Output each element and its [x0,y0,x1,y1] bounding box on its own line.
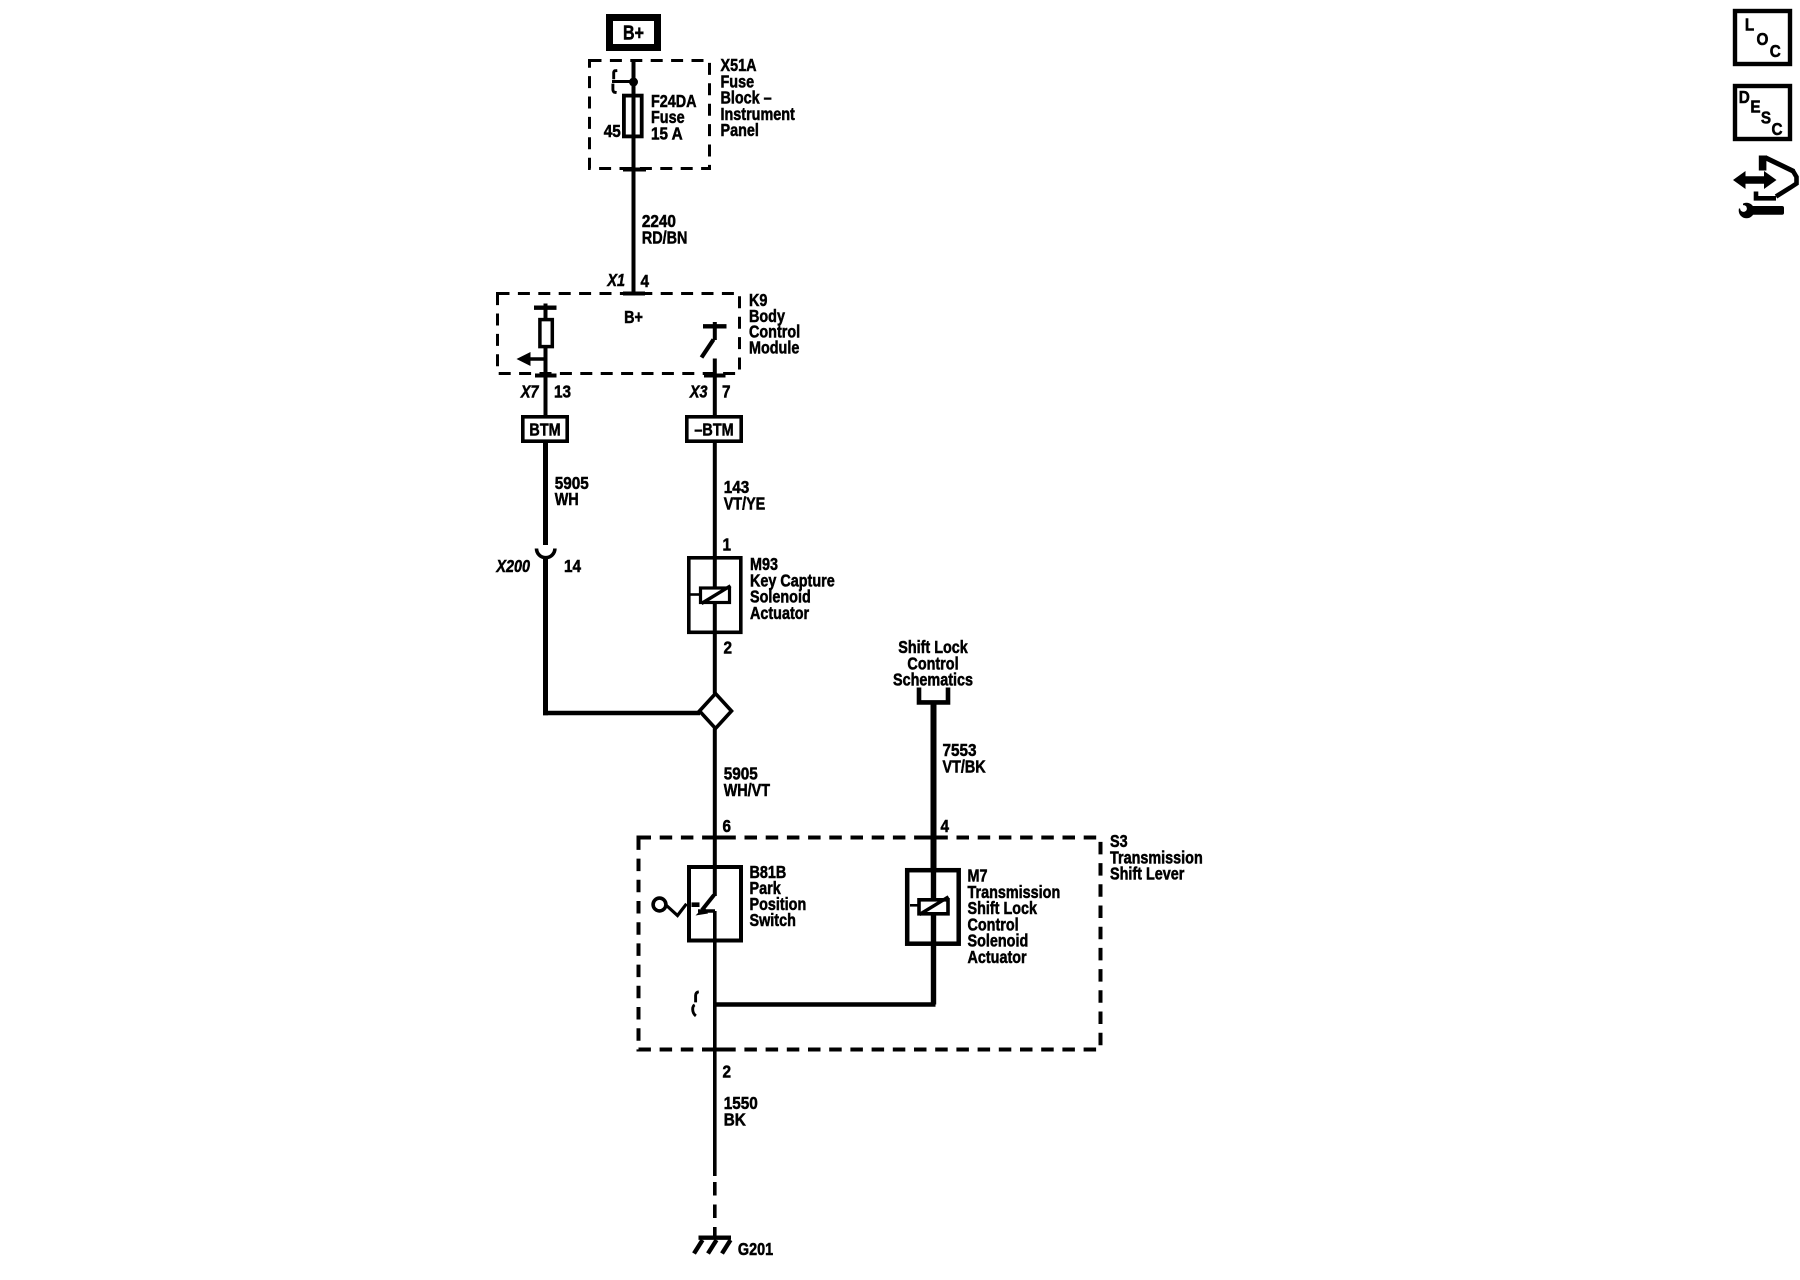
wire 143 VT/YE label [724,477,766,514]
svg-text:X3: X3 [689,382,707,402]
connector view navigation icon [1733,156,1797,199]
battery B+ terminal box [610,18,658,48]
X51A fuse block label [721,56,796,141]
svg-text:4: 4 [941,816,950,836]
svg-text:1: 1 [723,534,732,554]
svg-text:WH/VT: WH/VT [724,780,770,800]
-BTM net box [687,417,741,441]
body control module K9 dashed box [498,294,740,374]
M93 solenoid element [690,586,731,604]
ticks K9 bottom pins [535,374,726,378]
wire 143 VT/YE from -BTM to M93 [713,443,717,556]
svg-text:BTM: BTM [529,420,560,440]
ticks S3 top pins [704,836,945,840]
svg-text:VT/YE: VT/YE [724,494,766,514]
fuse F24DA value label [651,91,697,143]
svg-text:C: C [1772,119,1783,139]
BTM net box [523,417,567,441]
svg-text:2: 2 [723,1061,732,1081]
B81B park position switch label [750,863,807,931]
svg-text:–BTM: –BTM [694,420,733,440]
wire from X200 down to junction [543,556,548,715]
connector X7 pin 13 labels [520,381,571,402]
junction dot [629,78,638,87]
transmission shift lock solenoid M7 wire [931,868,936,1005]
svg-text:Schematics: Schematics [893,670,973,690]
svg-text:L: L [1745,14,1754,34]
terminal stub and hook in fuse block [612,71,634,93]
wire from B81B to ground leg [713,911,717,1176]
svg-text:14: 14 [564,556,582,576]
svg-text:E: E [1750,96,1760,116]
wire horizontal to diamond junction [543,711,700,715]
svg-text:45: 45 [604,121,621,141]
K9 body control module label [749,291,800,358]
svg-text:Module: Module [749,338,799,358]
svg-text:2: 2 [724,637,733,657]
svg-text:B+: B+ [624,308,643,328]
LOC link icon box [1735,11,1790,64]
wire B+ feed to BCM [632,60,636,294]
dashed wire to ground [713,1182,717,1237]
M7 solenoid element [910,897,949,915]
transmission shift lever S3 dashed box [639,838,1101,1050]
tick S3 bottom pin 2 [704,1048,726,1052]
svg-text:BK: BK [724,1109,746,1129]
wire 5905 WH/VT from diamond to S3 [713,729,717,837]
svg-text:VT/BK: VT/BK [943,757,986,777]
ground G201 symbol [694,1238,731,1254]
svg-text:RD/BN: RD/BN [642,228,688,248]
svg-text:15 A: 15 A [651,123,683,143]
wire into B81B [713,836,717,896]
connector X1 pin 4 labels [607,271,650,292]
M7 transmission shift lock control solenoid actuator label [968,866,1061,967]
M93 key capture solenoid actuator label [750,555,835,624]
splice hook symbol at junction [693,992,699,1016]
svg-text:6: 6 [723,816,732,836]
wire 5905 WH from BTM to X200 [543,443,548,545]
K9 internal switch element [702,322,727,415]
fuse F24DA [624,96,642,137]
S3 internal horizontal wire from M7 to B81B leg [715,1002,936,1006]
S3 transmission shift lever label [1110,832,1203,884]
svg-text:7: 7 [722,381,731,401]
svg-text:4: 4 [641,271,650,291]
svg-text:X200: X200 [496,557,530,577]
svg-text:X7: X7 [520,382,539,402]
shift lock control schematics off-page label [893,638,973,690]
wrench icon [1738,203,1784,219]
svg-text:13: 13 [554,381,571,401]
off-page connector bracket [919,688,948,703]
svg-text:B+: B+ [623,22,644,44]
svg-text:Actuator: Actuator [968,948,1028,968]
diamond splice node [700,694,732,729]
inline connector X200 symbol [537,549,555,558]
svg-text:Shift Lever: Shift Lever [1110,864,1185,884]
svg-text:Switch: Switch [750,911,796,931]
wire 5905 WH/VT label [724,763,770,800]
connector X3 pin 7 labels [689,381,730,402]
key capture solenoid actuator M93 box [689,558,741,633]
svg-text:O: O [1757,29,1769,49]
wire 2240 RD/BN label [642,211,688,248]
wire 1550 BK label [724,1093,758,1130]
M7 transmission shift lock control solenoid box [907,870,959,944]
B81B plunger circle and link [653,898,699,915]
fuse block X51A dashed box [590,61,710,169]
svg-text:S: S [1761,107,1771,127]
tick X51A bottom pin [623,168,646,172]
svg-text:C: C [1770,41,1781,61]
DESC link icon box [1735,86,1790,140]
connector X200 pin 14 labels [496,556,582,577]
svg-text:Panel: Panel [721,121,759,141]
svg-text:Actuator: Actuator [750,603,810,623]
B81B switch blade and contact [696,895,716,916]
svg-text:X1: X1 [607,271,625,291]
tick K9 top pin X1-4 [623,292,645,296]
svg-text:D: D [1739,87,1750,107]
wire through M93 [713,556,717,694]
K9 internal arrow output [517,352,547,366]
park position switch B81B box [689,867,741,941]
svg-text:G201: G201 [738,1239,773,1259]
wire 7553 VT/BK [931,702,937,868]
wire 7553 VT/BK label [943,740,986,777]
wire 5905 WH label [555,473,589,510]
svg-text:WH: WH [555,490,579,510]
K9 internal fused output element [534,304,557,416]
